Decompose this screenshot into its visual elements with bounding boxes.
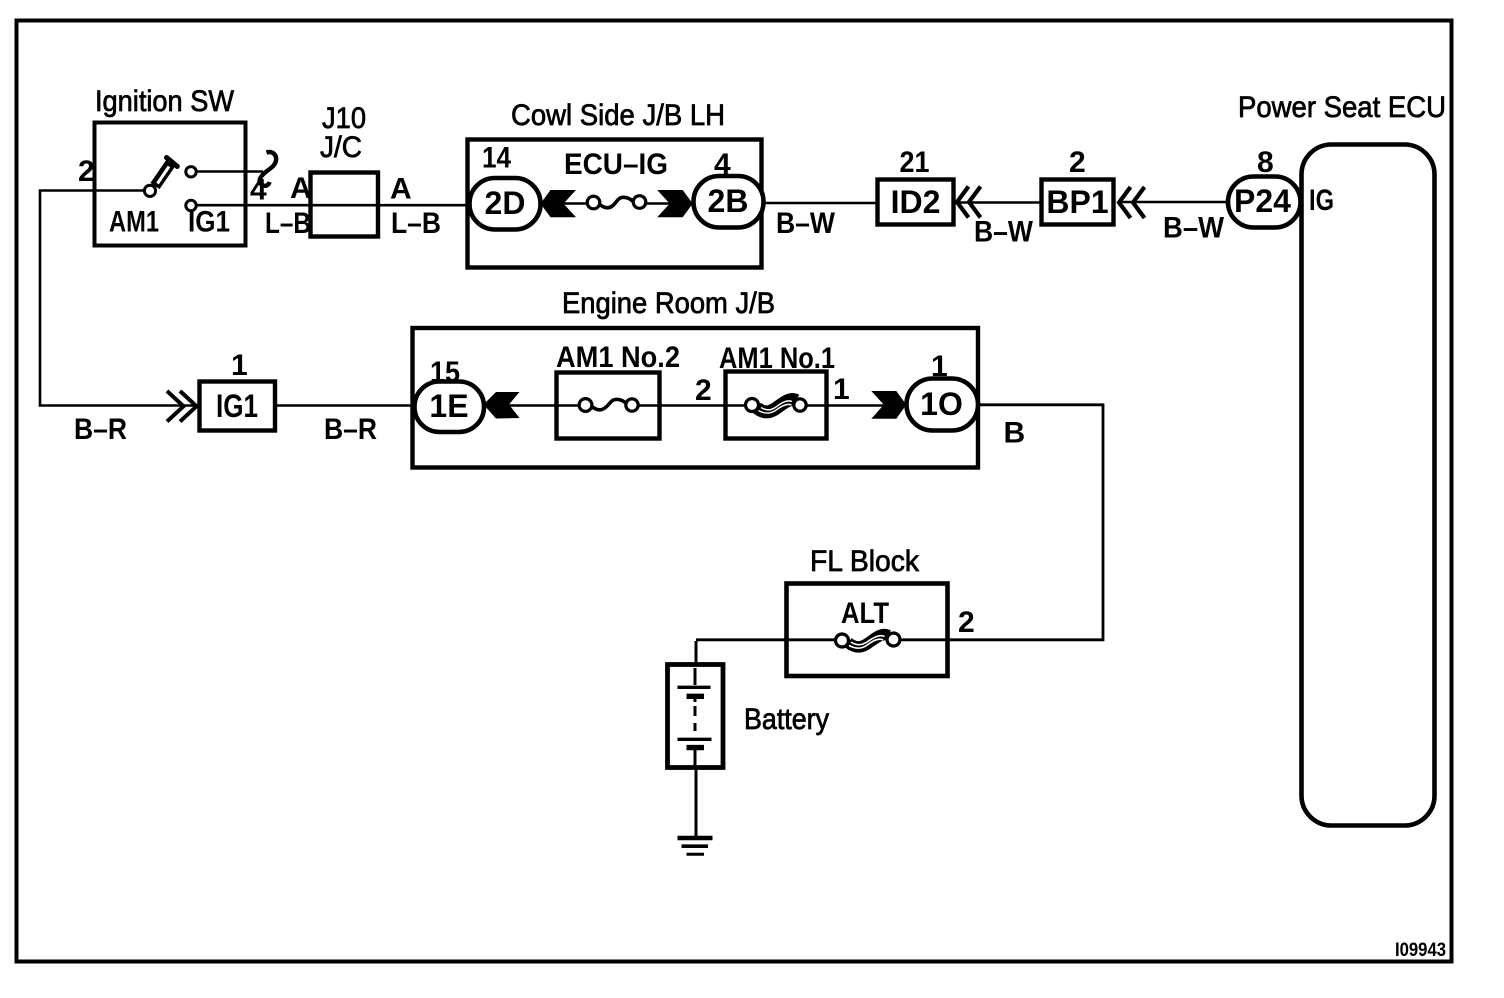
svg-text:ALT: ALT [841, 597, 889, 630]
svg-text:B–W: B–W [776, 207, 836, 240]
wire: inside FL block / to battery [696, 638, 952, 641]
Ignition SW box [95, 123, 246, 246]
connector 1E [415, 382, 485, 433]
svg-text:AM1: AM1 [109, 206, 159, 239]
svg-text:B–W: B–W [1163, 212, 1225, 245]
svg-text:AM1 No.2: AM1 No.2 [556, 341, 680, 374]
svg-text:A: A [290, 172, 312, 205]
svg-text:2: 2 [695, 374, 712, 407]
chevron arrows after BP1 [1119, 187, 1145, 218]
svg-text:1: 1 [231, 349, 248, 382]
wire: 2B to ID2 [762, 202, 877, 205]
svg-text:IG1: IG1 [188, 206, 230, 239]
hook symbol (wire continuation curl) [260, 152, 277, 186]
svg-text:L–B: L–B [265, 207, 311, 240]
Engine Room J/B box [413, 328, 979, 468]
arrow (right) at 1O [871, 391, 906, 419]
svg-text:Power Seat ECU: Power Seat ECU [1238, 91, 1446, 124]
fuse AM1 No.2 box [557, 373, 660, 439]
connector IG1 box [200, 382, 276, 431]
svg-text:B–W: B–W [974, 216, 1034, 249]
connector BP1 box [1042, 180, 1114, 225]
connector 2D [470, 178, 541, 230]
battery symbol [678, 668, 712, 766]
connector 1O [907, 379, 979, 431]
fuse AM1 No.2 symbol [579, 399, 638, 412]
Power Seat ECU box [1302, 145, 1435, 826]
wire: IG1 box to 1E [276, 404, 416, 407]
svg-text:8: 8 [1257, 146, 1274, 179]
svg-text:B–R: B–R [74, 413, 127, 446]
wire: 1O to FL Block, node B [951, 405, 1103, 640]
Cowl Side J/B box [468, 140, 762, 268]
svg-text:IG1: IG1 [216, 388, 258, 424]
battery box [668, 665, 724, 768]
arrow (left) [541, 190, 577, 217]
svg-text:Ignition SW: Ignition SW [95, 85, 235, 118]
switch contact AM1 [144, 185, 155, 196]
svg-text:BP1: BP1 [1046, 184, 1108, 220]
svg-text:Cowl Side J/B LH: Cowl Side J/B LH [511, 99, 725, 132]
svg-text:Battery: Battery [744, 703, 829, 736]
arrow (right) [657, 190, 693, 217]
wire: ignition upper contact to hook [196, 170, 263, 173]
svg-text:J/C: J/C [320, 131, 362, 164]
wire: IG1 contact through J10 J/C to 2D [196, 204, 470, 207]
svg-text:B–R: B–R [324, 413, 377, 446]
svg-text:P24: P24 [1234, 183, 1291, 219]
wire: battery drop [695, 641, 698, 837]
svg-text:2B: 2B [708, 183, 749, 219]
svg-text:14: 14 [482, 142, 511, 175]
arrow (left) at 1E [484, 392, 520, 419]
svg-text:2: 2 [1069, 146, 1086, 179]
chevron arrows after ID2 [957, 187, 981, 218]
svg-text:ECU–IG: ECU–IG [564, 148, 668, 181]
wire: ID2 to BP1 [958, 201, 1041, 204]
svg-text:21: 21 [900, 146, 930, 179]
svg-text:A: A [390, 173, 412, 206]
fusible link ALT symbol [836, 633, 901, 648]
svg-text:1: 1 [833, 373, 850, 406]
svg-text:2D: 2D [485, 185, 526, 221]
connector 2B [694, 176, 764, 228]
junction connector J10 box [311, 173, 379, 237]
svg-text:1E: 1E [429, 388, 468, 424]
svg-text:L–B: L–B [391, 207, 441, 240]
svg-text:B: B [1004, 417, 1026, 450]
svg-text:Engine Room J/B: Engine Room J/B [562, 287, 775, 320]
wire: cowl fuse row [540, 202, 695, 205]
ground [678, 838, 713, 854]
wire: inside Engine Room J/B row [484, 404, 908, 407]
wire: BP1 to P24 [1118, 201, 1228, 204]
connector P24 [1228, 177, 1301, 228]
switch contact IG1 [186, 200, 196, 210]
switch contact upper (pin 4) [186, 167, 196, 177]
FL Block box [787, 584, 948, 677]
svg-text:IG: IG [1309, 184, 1334, 217]
svg-text:FL Block: FL Block [810, 545, 920, 578]
svg-text:ID2: ID2 [891, 184, 941, 220]
switch lever [155, 158, 177, 186]
connector ID2 box [878, 180, 954, 225]
fuse ECU-IG symbol [587, 196, 646, 209]
svg-text:2: 2 [958, 606, 975, 639]
svg-text:2: 2 [78, 155, 95, 188]
chevron arrows before IG1 [167, 391, 197, 422]
fusible link AM1 No.1 box [726, 372, 827, 439]
svg-text:I09943: I09943 [1395, 940, 1446, 961]
svg-text:1O: 1O [920, 386, 963, 422]
wire: AM1 feed from left vertical [40, 191, 199, 406]
fusible link AM1 No.1 symbol [746, 399, 807, 414]
